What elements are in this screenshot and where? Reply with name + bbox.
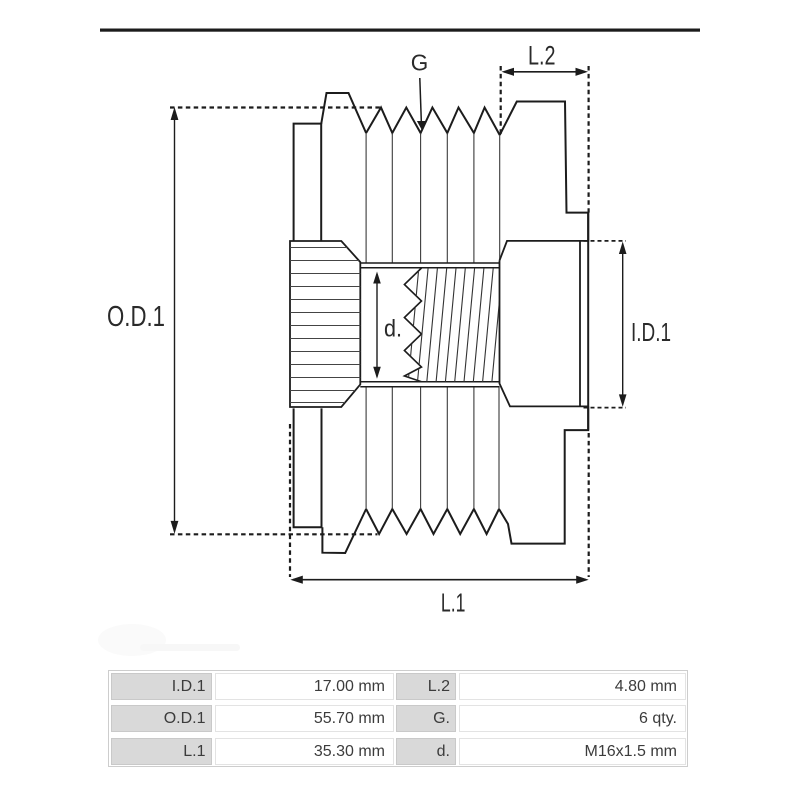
watermark blob — [98, 624, 240, 656]
pulley bottom-left cover rect — [294, 408, 322, 527]
sleeve bottom-right step — [499, 406, 588, 543]
dimension d. — [373, 272, 402, 379]
sleeve top-right step — [500, 102, 589, 242]
label G with arrow — [411, 50, 429, 131]
dimension L.2 — [501, 41, 589, 213]
svg-text:O.D.1: O.D.1 — [107, 301, 165, 333]
bore wall lines bottom — [360, 382, 499, 387]
bore wall lines top — [360, 263, 499, 268]
groove bottom lines lower — [366, 387, 499, 509]
bearing block hatched left — [288, 241, 362, 407]
thread zigzag — [404, 268, 421, 382]
svg-text:L.1: L.1 — [441, 588, 466, 618]
belt groove zigzag top — [366, 108, 500, 136]
dimension I.D.1 — [584, 241, 672, 408]
dimension O.D.1 — [107, 107, 380, 534]
right end face line — [587, 213, 589, 431]
thread hatch — [408, 266, 503, 384]
pulley outline top-left cover rect — [294, 124, 322, 241]
inner race block right — [500, 241, 589, 407]
belt groove zigzag bottom — [366, 509, 499, 534]
svg-text:I.D.1: I.D.1 — [631, 319, 671, 347]
svg-text:d.: d. — [384, 316, 402, 343]
svg-text:L.2: L.2 — [528, 41, 556, 71]
dimension L.1 — [290, 424, 589, 618]
pulley bottom flange tab — [322, 509, 366, 553]
svg-text:G: G — [411, 50, 429, 76]
spec table — [108, 670, 688, 767]
groove bottom lines upper — [366, 133, 500, 263]
pulley top flange tab — [321, 93, 366, 133]
top border line — [100, 29, 700, 32]
